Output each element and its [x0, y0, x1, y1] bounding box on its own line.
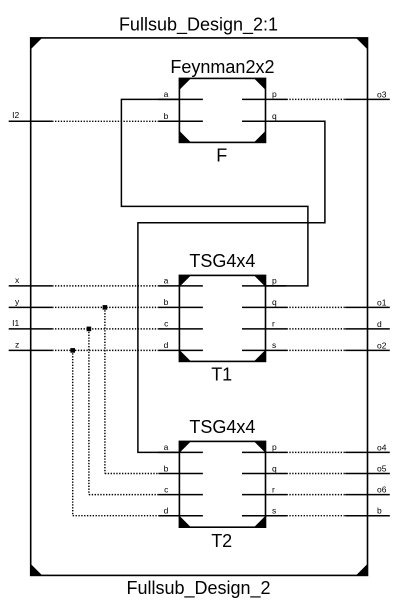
svg-text:x: x	[15, 275, 20, 285]
svg-text:o1: o1	[377, 297, 387, 307]
svg-text:s: s	[272, 340, 276, 350]
wire net F.a : F block to T1.p (solid)	[121, 99, 308, 286]
wire T2.p to o4 (dotted)	[287, 451, 346, 453]
svg-text:b: b	[164, 463, 169, 473]
wire T1.s to o2 (dotted)	[287, 349, 346, 351]
svg-text:r: r	[272, 484, 275, 494]
pin q of T2	[242, 473, 287, 475]
svg-text:d: d	[164, 340, 169, 350]
svg-text:o5: o5	[377, 463, 387, 473]
svg-text:TSG4x4: TSG4x4	[189, 417, 255, 437]
pin a of T2	[158, 451, 203, 453]
wire I1 to T1.c (dotted)	[52, 328, 158, 330]
wire T2.r to o6 (dotted)	[287, 494, 346, 496]
output port o4	[345, 442, 390, 452]
svg-text:d: d	[164, 506, 169, 516]
svg-text:a: a	[164, 89, 169, 99]
pin r of T1	[242, 328, 287, 330]
input port x	[9, 275, 53, 286]
pin p of T2	[242, 451, 287, 453]
pin s of T2	[242, 515, 287, 517]
svg-text:q: q	[272, 297, 277, 307]
pin q of T1	[242, 306, 287, 308]
svg-text:T2: T2	[211, 531, 232, 551]
pin a of F	[158, 98, 203, 100]
output port o5	[345, 463, 390, 473]
pin c of T2	[158, 494, 203, 496]
pin a of T1	[158, 285, 203, 287]
svg-text:a: a	[164, 276, 169, 286]
svg-text:p: p	[272, 442, 277, 452]
pin b of F	[158, 120, 203, 122]
svg-text:o4: o4	[377, 442, 387, 452]
svg-text:d: d	[377, 319, 382, 329]
input port y	[9, 296, 53, 307]
svg-text:T1: T1	[211, 365, 232, 385]
svg-text:r: r	[272, 319, 275, 329]
svg-text:o3: o3	[377, 89, 387, 99]
svg-text:y: y	[15, 296, 20, 306]
svg-text:I1: I1	[12, 318, 19, 328]
wire net F.q : F block to T2.a (solid)	[138, 121, 325, 452]
wire z to T1.d (dotted)	[52, 349, 158, 351]
wire T1.q to o1 (dotted)	[287, 306, 346, 308]
wire x to T1.a (dotted)	[52, 285, 158, 287]
wire T2.q to o5 (dotted)	[287, 473, 346, 475]
wire T2.s to b (dotted)	[287, 515, 346, 517]
wire branch I1 to T2.c (dotted)	[89, 329, 158, 495]
output port o3	[345, 89, 390, 99]
wire T1.r to d (dotted)	[287, 328, 346, 330]
output port o2	[345, 340, 390, 350]
svg-text:b: b	[164, 111, 169, 121]
svg-text:s: s	[272, 506, 276, 516]
svg-text:c: c	[164, 319, 169, 329]
svg-text:p: p	[272, 89, 277, 99]
svg-text:z: z	[15, 339, 19, 349]
block T1 TSG4x4 body	[179, 275, 265, 361]
svg-text:Fullsub_Design_2:1: Fullsub_Design_2:1	[119, 14, 278, 35]
svg-text:c: c	[164, 484, 169, 494]
input port I2	[9, 110, 53, 121]
junction on net z	[70, 348, 75, 353]
wire y to T1.b (dotted)	[52, 306, 158, 308]
schematic border	[31, 38, 368, 576]
output port o6	[345, 485, 390, 495]
svg-text:o2: o2	[377, 340, 387, 350]
junction on net I1	[87, 327, 92, 332]
block U1 Feynman2x2 body	[179, 78, 265, 142]
svg-text:q: q	[272, 463, 277, 473]
block T2 TSG4x4 body	[179, 441, 265, 527]
pin p of T1	[242, 285, 287, 287]
pin p of F	[242, 98, 287, 100]
svg-text:I2: I2	[12, 110, 19, 120]
pin q of F	[242, 120, 287, 122]
output port b	[345, 506, 390, 516]
svg-text:b: b	[377, 506, 382, 516]
pin b of T2	[158, 473, 203, 475]
svg-text:TSG4x4: TSG4x4	[189, 251, 255, 271]
svg-text:Feynman2x2: Feynman2x2	[170, 57, 274, 77]
wire branch y to T2.b (dotted)	[105, 307, 158, 473]
junction on net y	[103, 305, 108, 310]
input port I1	[9, 318, 53, 329]
output port o1	[345, 297, 390, 307]
wire branch z to T2.d (dotted)	[73, 350, 159, 515]
wire F.p to o3 (dotted)	[287, 98, 346, 100]
pin d of T1	[158, 349, 203, 351]
svg-text:q: q	[272, 111, 277, 121]
pin c of T1	[158, 328, 203, 330]
svg-text:o6: o6	[377, 485, 387, 495]
wire I2 to F.b (dotted)	[52, 120, 158, 122]
output port d	[345, 319, 390, 329]
svg-text:b: b	[164, 297, 169, 307]
svg-text:p: p	[272, 276, 277, 286]
pin b of T1	[158, 306, 203, 308]
pin d of T2	[158, 515, 203, 517]
svg-text:a: a	[164, 442, 169, 452]
svg-text:Fullsub_Design_2: Fullsub_Design_2	[126, 578, 270, 599]
pin r of T2	[242, 494, 287, 496]
svg-text:F: F	[216, 146, 227, 166]
input port z	[9, 339, 53, 350]
pin s of T1	[242, 349, 287, 351]
